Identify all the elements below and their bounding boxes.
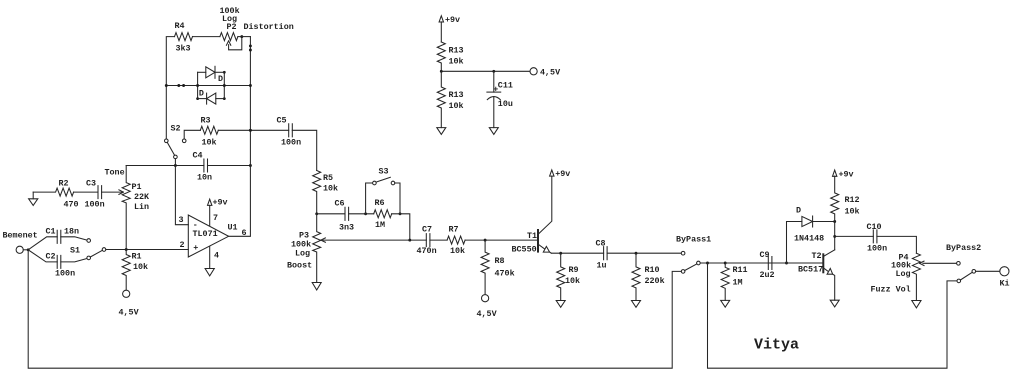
potentiometer P1 — [105, 166, 151, 250]
svg-text:P1: P1 — [132, 182, 142, 192]
svg-text:4,5V: 4,5V — [540, 67, 561, 77]
svg-text:Distortion: Distortion — [244, 22, 294, 32]
svg-text:1M: 1M — [375, 220, 385, 230]
node R5/C6/P3 junction — [315, 212, 318, 215]
svg-text:Ki: Ki — [1000, 278, 1010, 288]
wire R6 right corner down — [392, 214, 410, 240]
svg-text:R3: R3 — [201, 115, 211, 125]
svg-text:BC517: BC517 — [798, 264, 823, 274]
capacitor C10 — [867, 222, 888, 254]
ground under T2 — [830, 300, 839, 307]
svg-text:R4: R4 — [175, 21, 185, 31]
svg-text:10k: 10k — [845, 206, 860, 216]
svg-text:D: D — [218, 74, 223, 84]
ground under R10 — [632, 301, 641, 308]
capacitor C8 — [596, 238, 608, 270]
svg-text:4,5V: 4,5V — [119, 307, 140, 317]
svg-text:Bemenet: Bemenet — [3, 231, 38, 241]
ground at op-amp pin 4 — [205, 246, 214, 276]
svg-text:U1: U1 — [228, 223, 238, 233]
wire P1 top to C4 net — [126, 165, 204, 167]
capacitor C1 — [46, 227, 80, 244]
node C4-left / pin3 vertical junction — [174, 164, 177, 167]
node bypass2 feed junction — [706, 262, 709, 265]
node S3 left junction — [364, 212, 367, 215]
svg-text:Fuzz Vol: Fuzz Vol — [871, 284, 911, 294]
svg-text:TL071: TL071 — [193, 229, 218, 239]
node R8 junction — [484, 239, 487, 242]
wire left diode stub — [197, 72, 199, 98]
wire C2 to S1 lower throw — [61, 259, 87, 262]
wire P3 wiper to C7 — [323, 239, 426, 241]
input terminal Bemenet — [3, 231, 38, 254]
resistor R5 — [313, 171, 338, 214]
svg-text:R6: R6 — [375, 198, 385, 208]
svg-text:C4: C4 — [193, 151, 203, 161]
svg-text:10n: 10n — [197, 172, 212, 182]
svg-text:10u: 10u — [498, 99, 513, 109]
wire diode net horizontal — [166, 85, 250, 87]
wire C7 to R7 — [430, 239, 447, 241]
capacitor C2 — [46, 252, 76, 279]
resistor R3 — [200, 115, 218, 147]
svg-text:18n: 18n — [64, 227, 79, 237]
svg-text:+9v: +9v — [213, 197, 228, 207]
wire R2 to C3 — [74, 191, 98, 193]
node R11 junction — [724, 262, 727, 265]
node diode net left junction — [165, 84, 168, 87]
wire R3 to C5 with junction — [218, 129, 288, 131]
svg-text:100n: 100n — [55, 268, 75, 278]
svg-text:1u: 1u — [597, 260, 607, 270]
svg-text:3k3: 3k3 — [176, 43, 191, 53]
wire C6 net — [317, 213, 345, 215]
resistor R8 — [481, 240, 515, 295]
svg-text:220k: 220k — [645, 276, 665, 286]
svg-text:2u2: 2u2 — [760, 270, 775, 280]
ground at R2 — [29, 192, 38, 205]
wire C10 net — [835, 235, 874, 237]
svg-text:Log: Log — [295, 249, 310, 259]
switch ByPass2 — [946, 243, 981, 283]
svg-text:1M: 1M — [733, 277, 743, 287]
transistor T1 BC550 — [512, 176, 552, 254]
svg-text:T2: T2 — [812, 251, 822, 261]
svg-text:3n3: 3n3 — [339, 223, 354, 233]
svg-text:D: D — [796, 205, 801, 215]
resistor R9 — [557, 253, 580, 300]
svg-text:3: 3 — [179, 215, 184, 225]
svg-text:Lin: Lin — [134, 202, 149, 212]
wire P4 wiper to ByPass2 — [923, 262, 957, 264]
wire S1 common to op-amp pin2 — [106, 249, 189, 251]
svg-text:+9v: +9v — [555, 169, 570, 179]
svg-text:C8: C8 — [596, 238, 606, 248]
svg-text:22K: 22K — [134, 192, 150, 202]
svg-text:R11: R11 — [733, 265, 748, 275]
wire S2 second contact to R3 — [184, 130, 200, 139]
svg-text:P2: P2 — [227, 22, 237, 32]
+9v arrow power rail — [439, 15, 460, 42]
svg-text:10k: 10k — [450, 246, 465, 256]
svg-text:+: + — [193, 243, 198, 253]
+9v arrow at T1 collector — [550, 169, 571, 179]
wire C4 right to feedback vertical — [208, 165, 251, 167]
wire C8 to ByPass1 upper throw — [607, 252, 681, 254]
svg-text:ByPass2: ByPass2 — [946, 243, 981, 253]
ground under P4 — [912, 301, 921, 308]
svg-text:R7: R7 — [449, 224, 459, 234]
svg-text:+9v: +9v — [445, 15, 460, 25]
resistor R4 — [175, 21, 193, 53]
svg-text:4,5V: 4,5V — [477, 309, 498, 319]
diode D 1N4148 — [794, 205, 835, 243]
transistor T2 BC517 — [798, 250, 835, 300]
+9v arrow at R12 — [833, 170, 854, 180]
resistor R7 — [447, 224, 465, 256]
svg-text:100n: 100n — [85, 199, 105, 209]
resistor R12 — [831, 176, 860, 250]
node dots on feedback vertical below P2 — [249, 44, 252, 51]
ground under R11 — [721, 300, 730, 307]
node diode stub junctions — [196, 71, 226, 100]
+9v arrow at op-amp pin 7 — [208, 197, 228, 226]
wire C6 to R6 — [349, 213, 374, 215]
wire P2 to right feedback vertical — [238, 36, 251, 38]
switch S2 — [165, 123, 187, 158]
wire S2 throw down to pin3 — [175, 159, 188, 225]
svg-text:C3: C3 — [86, 178, 96, 188]
output terminal Ki — [1000, 267, 1010, 289]
resistor R2 — [33, 178, 78, 209]
ground under R9 — [556, 301, 565, 308]
svg-text:R2: R2 — [59, 178, 69, 188]
svg-text:R13: R13 — [449, 90, 464, 100]
node C10 branch junction — [833, 235, 836, 238]
wire C1 to S1 upper throw — [61, 237, 87, 240]
node P2 right junction — [240, 35, 243, 38]
svg-text:470k: 470k — [495, 268, 515, 278]
svg-text:Vitya: Vitya — [754, 337, 799, 354]
capacitor C6 — [335, 199, 355, 233]
svg-text:470: 470 — [64, 199, 79, 209]
wire diode branch up — [787, 222, 802, 264]
capacitor C5 — [277, 115, 302, 147]
svg-text:R9: R9 — [569, 265, 579, 275]
terminal 4,5V rail — [530, 67, 561, 77]
node R9 junction — [559, 252, 562, 255]
diode D upper clipping — [198, 66, 225, 84]
wire C3 to P1 wiper — [102, 190, 124, 195]
svg-text:D: D — [199, 89, 204, 99]
node diode/R12 junction — [833, 220, 836, 223]
svg-text:R8: R8 — [495, 256, 505, 266]
node diode branch junction — [785, 262, 788, 265]
svg-text:2: 2 — [180, 240, 185, 250]
node input junction — [27, 248, 30, 251]
wire node to C1 — [28, 237, 57, 250]
op-amp U1 TL071 — [179, 213, 247, 261]
capacitor C11 electrolytic — [487, 71, 513, 127]
svg-text:10k: 10k — [202, 138, 217, 148]
resistor R13 upper — [437, 42, 463, 71]
wire input to node — [23, 249, 28, 251]
wire node to C2 — [28, 250, 57, 262]
node R3/C5 feedback junction — [249, 129, 252, 132]
svg-text:C9: C9 — [760, 250, 770, 260]
svg-text:C2: C2 — [46, 252, 56, 262]
node feedback/R3-C5 line junction — [249, 129, 252, 132]
svg-text:C7: C7 — [422, 224, 432, 234]
svg-text:Log: Log — [896, 269, 911, 279]
svg-text:S1: S1 — [70, 245, 80, 255]
ground under P3 — [312, 283, 321, 291]
resistor R11 — [721, 263, 747, 300]
svg-text:T1: T1 — [527, 231, 537, 241]
node P1/R1 junction — [125, 248, 128, 251]
svg-text:R12: R12 — [845, 195, 860, 205]
svg-text:S3: S3 — [379, 166, 389, 176]
node S3 right junction — [399, 212, 402, 215]
svg-text:+: + — [493, 84, 498, 94]
wire T1 emitter line to C8 — [551, 252, 603, 254]
wire bypass loop 2 ByPass1 common to ByPass2 — [708, 263, 958, 368]
node dots mid diode net — [177, 84, 185, 87]
wire ByPass2 common to Ki — [976, 270, 1000, 272]
svg-text:C1: C1 — [46, 227, 56, 237]
svg-text:Boost: Boost — [287, 261, 312, 271]
svg-text:1N4148: 1N4148 — [794, 233, 824, 243]
capacitor C7 — [417, 224, 437, 256]
svg-text:+9v: +9v — [839, 170, 854, 180]
svg-text:10k: 10k — [323, 184, 338, 194]
svg-text:-: - — [193, 220, 198, 230]
capacitor C4 — [193, 151, 213, 183]
node S3/R6 down junction — [408, 239, 411, 242]
svg-text:470n: 470n — [417, 246, 437, 256]
wire R4 to P2 — [193, 36, 220, 38]
svg-text:100n: 100n — [281, 138, 301, 148]
wire C10 to P4 — [877, 236, 917, 253]
wire ByPass1 common to T2 base net — [700, 262, 823, 264]
potentiometer P3 — [287, 214, 325, 283]
terminal 4,5V under R1 — [119, 290, 140, 317]
resistor R1 — [122, 250, 148, 291]
node R13 divider junction — [440, 70, 443, 73]
svg-text:10k: 10k — [133, 262, 148, 272]
node diode net right junction — [249, 84, 252, 87]
ground under R13 — [437, 128, 446, 135]
switch S1 — [70, 239, 106, 260]
svg-text:S2: S2 — [171, 123, 181, 133]
resistor R10 — [632, 253, 665, 300]
svg-text:10k: 10k — [449, 101, 464, 111]
terminal 4,5V under R8 — [477, 295, 498, 320]
wire bypass loop 1 input to ByPass1 — [28, 250, 681, 368]
svg-text:R5: R5 — [323, 173, 333, 183]
svg-text:C6: C6 — [335, 199, 345, 209]
wire op-amp output to feedback vertical — [229, 37, 251, 237]
switch S3 — [366, 166, 400, 213]
svg-text:10k: 10k — [565, 276, 580, 286]
svg-text:100n: 100n — [867, 244, 887, 254]
wire 4,5V rail — [441, 70, 530, 72]
svg-text:10k: 10k — [449, 57, 464, 67]
resistor R13 lower — [437, 71, 463, 127]
potentiometer P2 — [220, 6, 294, 50]
wire left feedback vertical — [166, 37, 174, 139]
capacitor C9 — [760, 250, 775, 280]
svg-text:C5: C5 — [277, 115, 287, 125]
svg-text:R1: R1 — [132, 251, 142, 261]
svg-text:R13: R13 — [449, 45, 464, 55]
node C4-right junction — [249, 164, 252, 167]
node R10 junction — [635, 252, 638, 255]
svg-text:Tone: Tone — [105, 168, 125, 178]
svg-text:C10: C10 — [867, 222, 882, 232]
node C11 branch junction — [492, 70, 495, 73]
ground under C11 — [489, 128, 498, 135]
wire right diode stub — [223, 72, 225, 98]
svg-text:7: 7 — [213, 213, 218, 223]
svg-text:R10: R10 — [645, 265, 660, 275]
wire R7 to T1 base — [465, 239, 538, 241]
capacitor C3 — [85, 178, 105, 209]
svg-text:ByPass1: ByPass1 — [676, 234, 711, 244]
switch ByPass1 — [676, 234, 711, 273]
svg-text:4: 4 — [214, 251, 219, 261]
potentiometer P4 — [871, 252, 925, 300]
svg-text:C11: C11 — [498, 80, 513, 90]
wire C5 right down to R5 — [292, 130, 316, 170]
diode D lower clipping — [198, 89, 225, 104]
resistor R6 — [374, 198, 392, 230]
svg-text:BC550: BC550 — [512, 244, 537, 254]
